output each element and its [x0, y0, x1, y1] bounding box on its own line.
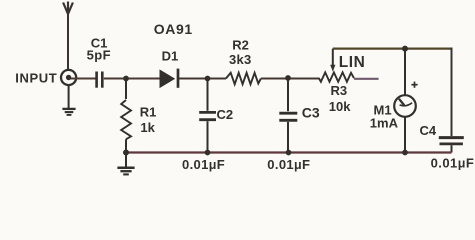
wire D1 to R2 — [179, 78, 226, 80]
R3 wiper arrow — [330, 49, 335, 72]
node C2 top — [205, 76, 211, 82]
capacitor C1 — [97, 72, 103, 88]
node R1 bottom — [123, 150, 129, 156]
wire input to C1 — [71, 78, 96, 80]
R3 right stub — [354, 78, 379, 80]
input socket J1 — [61, 70, 76, 85]
svg-text:R1: R1 — [140, 105, 157, 120]
capacitor C3 — [279, 78, 297, 153]
wire C1 to D1 — [104, 78, 160, 80]
plus sign — [411, 82, 417, 88]
resistor R1 — [121, 79, 131, 153]
node M1 bottom — [402, 150, 408, 156]
top rail wiper to C4 — [333, 47, 452, 49]
wire R2 to R3 — [261, 78, 319, 80]
wire top rail corner down to C4 — [451, 48, 453, 137]
ground input — [62, 85, 75, 115]
svg-text:0.01μF: 0.01μF — [182, 157, 225, 172]
svg-text:5pF: 5pF — [87, 47, 111, 62]
svg-text:C4: C4 — [420, 123, 437, 138]
svg-text:D1: D1 — [162, 48, 179, 63]
meter M1 — [394, 49, 416, 153]
svg-text:3k3: 3k3 — [229, 52, 252, 67]
node C3 bottom — [286, 150, 292, 156]
node M1 top — [402, 46, 408, 52]
node R1 top — [123, 76, 129, 82]
svg-text:INPUT: INPUT — [15, 71, 57, 86]
ground bottom rail — [117, 153, 134, 175]
svg-text:C2: C2 — [217, 107, 234, 122]
svg-text:10k: 10k — [329, 99, 351, 114]
bottom rail — [126, 151, 452, 153]
capacitor C4 — [439, 138, 464, 153]
svg-text:R2: R2 — [232, 38, 249, 53]
node C2 bottom — [205, 150, 211, 156]
svg-text:1k: 1k — [140, 120, 155, 135]
antenna — [63, 2, 73, 71]
svg-text:C3: C3 — [302, 104, 320, 120]
svg-text:LIN: LIN — [339, 54, 365, 71]
svg-text:R3: R3 — [331, 83, 348, 98]
resistor R2 — [226, 73, 261, 84]
svg-text:OA91: OA91 — [154, 21, 193, 37]
potentiometer R3 — [319, 72, 354, 81]
capacitor C2 — [199, 79, 216, 153]
svg-text:0.01μF: 0.01μF — [267, 157, 310, 172]
node C3 top — [285, 75, 291, 81]
svg-text:0.01μF: 0.01μF — [431, 155, 475, 170]
diode D1 — [160, 69, 178, 88]
svg-text:1mA: 1mA — [370, 116, 399, 131]
